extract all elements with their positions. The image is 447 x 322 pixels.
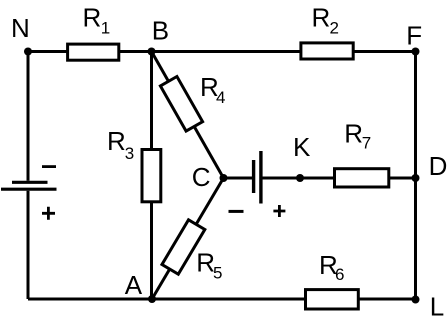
- svg-text:4: 4: [216, 88, 225, 107]
- svg-text:L: L: [430, 291, 444, 321]
- wire left lower battery-bottom: [27, 191, 30, 299]
- wire B-A vertical: [150, 52, 153, 300]
- resistor R5: [162, 220, 205, 274]
- battery E2 middle: short negative plate: [252, 160, 255, 193]
- svg-text:6: 6: [335, 265, 344, 284]
- svg-text:F: F: [406, 21, 422, 51]
- node K: [296, 174, 304, 182]
- wire right F-D-L: [414, 52, 417, 300]
- node B: [148, 48, 156, 56]
- battery E1 minus label: [42, 165, 56, 168]
- battery E2 middle: long positive plate: [259, 151, 262, 204]
- svg-text:K: K: [293, 132, 311, 162]
- svg-text:R: R: [344, 118, 363, 148]
- battery E2 plus label: [273, 205, 285, 217]
- wire B-C diagonal: [152, 52, 224, 179]
- svg-text:N: N: [11, 13, 30, 43]
- node L: [412, 296, 420, 304]
- svg-text:D: D: [429, 151, 447, 181]
- wire top N-B-F: [28, 50, 416, 53]
- svg-text:R: R: [107, 126, 126, 156]
- svg-text:C: C: [192, 162, 211, 192]
- svg-text:3: 3: [125, 144, 134, 163]
- node C: [220, 174, 228, 182]
- battery E1 plus label: [42, 207, 55, 220]
- wire bottom A-L: [28, 298, 416, 301]
- node F: [412, 48, 420, 56]
- resistor R7: [335, 169, 389, 187]
- wire middle C-battery: [224, 177, 253, 180]
- wire A-C diagonal: [152, 178, 224, 299]
- resistor R1: [68, 44, 119, 60]
- svg-text:1: 1: [101, 19, 110, 38]
- battery E1 left: short negative plate: [12, 181, 48, 184]
- svg-text:R: R: [83, 3, 102, 33]
- wire left upper N-battery: [27, 52, 30, 181]
- svg-text:R: R: [312, 2, 331, 32]
- battery E2 minus label: [229, 210, 244, 213]
- wire middle battery-K-D: [262, 177, 415, 180]
- resistor R4: [160, 77, 202, 132]
- svg-text:A: A: [125, 270, 143, 300]
- battery E1 left: long positive plate: [1, 188, 57, 191]
- svg-text:2: 2: [330, 19, 339, 38]
- node D: [412, 174, 420, 182]
- svg-text:5: 5: [213, 263, 222, 282]
- resistor R3: [142, 150, 161, 202]
- resistor R6: [306, 290, 359, 309]
- svg-text:7: 7: [362, 134, 371, 153]
- node A: [148, 295, 156, 303]
- node N: [24, 48, 32, 56]
- svg-text:B: B: [152, 16, 169, 46]
- resistor R2: [301, 43, 353, 59]
